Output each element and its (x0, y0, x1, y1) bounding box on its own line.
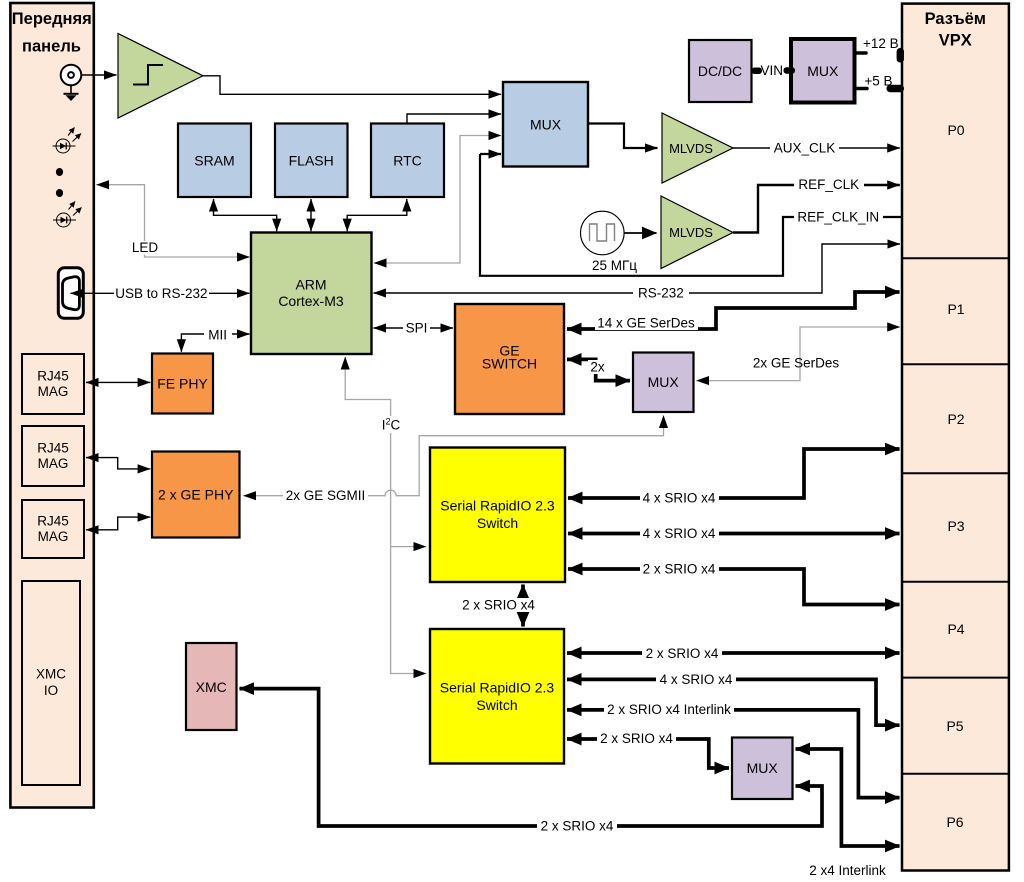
label 2 x SRIO x4 (P4 bottom) (642, 646, 722, 660)
MLVDS driver 2 (661, 196, 733, 269)
comparator triangle (118, 34, 203, 119)
svg-text:Switch: Switch (477, 515, 518, 531)
svg-text:RTC: RTC (393, 152, 422, 168)
wire 4 x SRIO x4 SRIO1 to VPX P3 (568, 532, 900, 536)
block ARM Cortex-M3 (251, 233, 372, 355)
svg-text:RJ45: RJ45 (37, 369, 69, 384)
wire 14 x GE SerDes GE SWITCH to VPX P1 (567, 292, 900, 329)
svg-text:VIN: VIN (761, 63, 784, 78)
label 14 x GE SerDes (595, 316, 698, 330)
label 4 x SRIO x4 (P5) (656, 672, 736, 686)
svg-text:MUX: MUX (807, 63, 839, 79)
svg-text:2 x SRIO x4: 2 x SRIO x4 (600, 731, 673, 746)
label SPI (403, 321, 430, 335)
LED dot 2 (56, 189, 63, 197)
wire coax to comparator (81, 74, 116, 76)
svg-text:4 x SRIO x4: 4 x SRIO x4 (660, 672, 733, 687)
wire REF_CLK_IN from VPX (480, 154, 901, 276)
svg-text:14 x GE SerDes: 14 x GE SerDes (597, 316, 695, 331)
svg-text:SWITCH: SWITCH (482, 355, 537, 371)
VPX section divider P2/P3 (902, 472, 1009, 474)
block DC/DC (689, 40, 752, 102)
label AUX_CLK (770, 141, 839, 155)
svg-text:2 x SRIO x4: 2 x SRIO x4 (541, 819, 614, 834)
label 2x GE SGMII (283, 489, 368, 502)
wire SRAM to ARM bus (214, 199, 277, 231)
svg-text:RJ45: RJ45 (37, 514, 69, 529)
label USB to RS-232 (114, 286, 209, 301)
svg-text:панель: панель (22, 38, 81, 56)
svg-text:2x GE SerDes: 2x GE SerDes (753, 356, 840, 371)
block MUX GE (small purple) (633, 353, 694, 413)
wire 2 x SRIO x4 Interlink SRIO2 to VPX P6 (567, 710, 900, 798)
svg-text:MUX: MUX (648, 374, 680, 390)
svg-text:25 МГц: 25 МГц (592, 258, 637, 273)
svg-text:2 x SRIO x4: 2 x SRIO x4 (462, 598, 535, 613)
block SRAM (178, 124, 251, 198)
wire gray 2x GE SerDes MUX GE to VPX P1 (697, 327, 900, 381)
svg-text:P3: P3 (947, 518, 964, 534)
XMC IO box (22, 581, 80, 785)
svg-text:Serial RapidIO 2.3: Serial RapidIO 2.3 (440, 497, 555, 513)
svg-text:ARM: ARM (295, 276, 326, 292)
wire USB to RS-232 to ARM (71, 292, 250, 294)
RJ45 MAG box 2 (22, 426, 84, 486)
wire oscillator to MLVDS2 (625, 232, 657, 234)
wire comparator output to clock MUX input 1 (203, 76, 501, 95)
block XMC (186, 643, 237, 730)
wire gray from clock net to ARM right (374, 135, 460, 263)
wire clock MUX output to MLVDS1 (589, 124, 658, 149)
USB connector on front panel (58, 268, 83, 319)
svg-text:IO: IO (44, 683, 58, 698)
block 2 x GE PHY (152, 452, 240, 538)
svg-text:DC/DC: DC/DC (698, 63, 742, 79)
label 2 x SRIO x4 (long bottom) (537, 819, 617, 833)
wire RJ45-1 to FE PHY (86, 381, 150, 383)
label 2 x SRIO x4 (to MUX) (597, 731, 676, 745)
svg-text:Switch: Switch (476, 697, 517, 713)
wire 4 x SRIO x4 SRIO1 to VPX P2 (568, 449, 900, 498)
label 4 x SRIO x4 (P3) (640, 527, 719, 541)
wire 2x GE SWITCH to MUX GE (567, 359, 630, 380)
svg-text:MII: MII (208, 328, 227, 343)
label 2 x SRIO x4 (P4) (640, 562, 719, 576)
svg-text:2 x GE PHY: 2 x GE PHY (158, 487, 234, 503)
svg-text:USB to RS-232: USB to RS-232 (115, 286, 207, 301)
wire LED gray from panel to ARM (97, 185, 250, 257)
svg-text:+5 В: +5 В (864, 74, 892, 89)
wire RJ45-2 to GE PHY (86, 458, 150, 469)
svg-text:MLVDS: MLVDS (669, 225, 713, 240)
VPX section divider P0/P1 (902, 257, 1009, 259)
svg-text:SRAM: SRAM (194, 152, 234, 168)
svg-text:Serial RapidIO 2.3: Serial RapidIO 2.3 (440, 679, 555, 695)
label 2 x SRIO x4 (between switches) (459, 598, 538, 612)
RJ45 MAG box 3 (22, 500, 84, 558)
svg-text:MAG: MAG (38, 384, 69, 399)
label I2C (381, 416, 402, 433)
svg-text:MAG: MAG (38, 456, 69, 471)
wire SPI ARM to GE SWITCH (374, 327, 454, 329)
svg-text:P0: P0 (947, 122, 964, 138)
svg-text:MUX: MUX (530, 116, 562, 132)
svg-text:LED: LED (132, 240, 159, 255)
wire +12V MUX power to VPX stub (857, 51, 867, 55)
svg-text:I2C: I2C (382, 417, 401, 433)
label 2 x SRIO x4 Interlink (604, 702, 734, 716)
label LED (128, 241, 162, 255)
svg-text:XMC: XMC (36, 667, 66, 682)
svg-text:RJ45: RJ45 (37, 441, 69, 456)
wire REF_CLK_IN stub into clock MUX input 4 (480, 153, 501, 155)
block RTC (371, 124, 444, 198)
label 4 x SRIO x4 (P2) (640, 491, 719, 505)
VPX connector panel Разъём VPX (902, 4, 1009, 871)
+12V end cap at VPX (897, 48, 904, 63)
wire gray I2C branch to SRIO switch 1 (391, 546, 426, 548)
block FLASH (275, 124, 348, 198)
wire +5V MUX power to VPX stub (857, 87, 868, 91)
svg-text:AUX_CLK: AUX_CLK (774, 140, 836, 155)
RJ45 MAG box 1 (22, 354, 84, 414)
wire gray I2C from ARM bottom to SRIO switches (345, 357, 426, 674)
VPX section divider P4/P5 (902, 677, 1009, 679)
svg-text:XMC: XMC (196, 679, 227, 695)
svg-text:MAG: MAG (38, 529, 69, 544)
wire AUX_CLK MLVDS1 to VPX P0 (733, 147, 900, 149)
block MUX power (thick border) (791, 39, 855, 103)
oscillator square wave glyph (590, 224, 615, 241)
svg-text:P1: P1 (947, 301, 964, 317)
wire RTC to ARM bus (347, 199, 407, 231)
wire MUX bottom to VPX P6 (796, 749, 900, 846)
wire RJ45-3 to GE PHY (86, 517, 150, 530)
svg-text:REF_CLK: REF_CLK (798, 177, 859, 192)
svg-text:2 x4 Interlink: 2 x4 Interlink (809, 863, 886, 878)
wire 4 x SRIO x4 SRIO2 to VPX P5 (567, 679, 900, 725)
svg-text:P5: P5 (946, 718, 963, 734)
svg-text:FE PHY: FE PHY (157, 375, 208, 391)
VPX section divider P1/P2 (902, 363, 1009, 365)
svg-text:REF_CLK_IN: REF_CLK_IN (797, 209, 879, 224)
wire 2 x SRIO x4 long XMC to MUX bottom (240, 689, 823, 826)
label RS-232 (633, 286, 689, 300)
+5V end cap at VPX (887, 85, 905, 92)
svg-text:FLASH: FLASH (289, 152, 334, 168)
VPX section divider P5/P6 (902, 773, 1009, 775)
block MUX clock (blue) (503, 82, 588, 167)
LED symbol 2 (53, 202, 82, 228)
svg-text:+12 В: +12 В (863, 36, 899, 51)
oscillator 25 MHz circle (581, 211, 625, 255)
label 2x (588, 360, 607, 374)
svg-text:4 x SRIO x4: 4 x SRIO x4 (643, 491, 716, 506)
LED dot 1 (56, 168, 63, 176)
ground symbol under coax (64, 93, 79, 95)
block GE SWITCH (455, 304, 564, 414)
svg-text:Передняя: Передняя (12, 10, 92, 28)
svg-text:P4: P4 (947, 621, 964, 637)
wire MII ARM to FE PHY (181, 334, 249, 352)
wire 2 x SRIO x4 SRIO2 to MUX bottom (567, 739, 729, 768)
svg-text:VPX: VPX (939, 31, 972, 49)
wire 2 x SRIO x4 between SRIO switches (521, 585, 525, 627)
coax connector on front panel (61, 65, 82, 86)
block FE PHY (152, 354, 213, 414)
svg-text:2x: 2x (590, 360, 605, 375)
label MII (204, 328, 232, 341)
wire FLASH to ARM double arrow (310, 199, 312, 231)
VIN nub left (752, 68, 763, 75)
front panel Передняя панель (10, 3, 93, 808)
svg-text:MUX: MUX (747, 760, 779, 776)
wire gray 2x GE SGMII MUX GE to GE PHY with hop (244, 416, 664, 496)
svg-text:2 x SRIO x4: 2 x SRIO x4 (643, 562, 716, 577)
block Serial RapidIO switch 1 (430, 448, 565, 583)
svg-text:2 x SRIO x4 Interlink: 2 x SRIO x4 Interlink (607, 702, 731, 717)
VPX section divider P3/P4 (902, 581, 1009, 583)
wire RTC top to clock MUX input 2 (407, 114, 501, 124)
wire 2 x SRIO x4 SRIO1 to VPX P4 (568, 569, 900, 605)
MLVDS driver 1 (662, 113, 733, 183)
svg-text:RS-232: RS-232 (638, 286, 684, 301)
label REF_CLK (794, 178, 864, 192)
svg-text:P2: P2 (947, 411, 964, 427)
block Serial RapidIO switch 2 (430, 629, 564, 764)
wire RS-232 ARM to VPX P0 (374, 244, 901, 293)
svg-text:2 x SRIO x4: 2 x SRIO x4 (646, 646, 719, 661)
wire gray clock MUX input 3 (460, 135, 501, 137)
LED symbol 1 (53, 128, 82, 154)
svg-text:P6: P6 (946, 814, 963, 830)
svg-text:MLVDS: MLVDS (669, 141, 713, 156)
label REF_CLK_IN (794, 210, 883, 224)
svg-text:4 x SRIO x4: 4 x SRIO x4 (643, 526, 716, 541)
VIN nub right (784, 67, 796, 74)
svg-text:SPI: SPI (406, 321, 428, 336)
svg-text:Разъём: Разъём (925, 10, 986, 28)
svg-text:2x GE SGMII: 2x GE SGMII (286, 488, 366, 503)
wire 2 x SRIO x4 SRIO2 to VPX P4 (567, 651, 900, 655)
comparator step symbol (133, 65, 163, 85)
block MUX bottom (purple) (732, 738, 793, 800)
svg-text:Cortex-M3: Cortex-M3 (278, 293, 344, 309)
wire REF_CLK MLVDS2 to VPX P0 (733, 185, 900, 233)
